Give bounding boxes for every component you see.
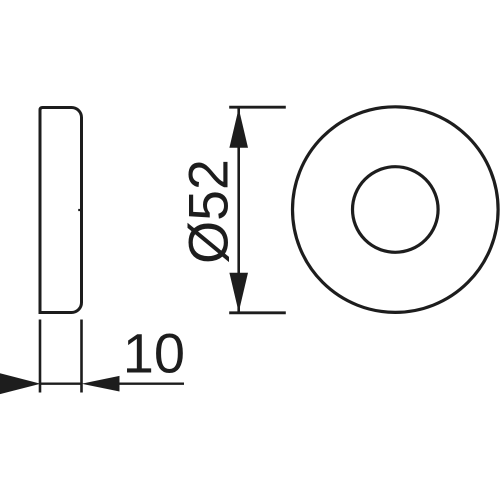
svg-text:10: 10 (123, 322, 185, 385)
dimension line Ø52 vertical (237, 109, 240, 312)
inner circle (hole) (353, 167, 439, 253)
outer circle (front view) (293, 107, 499, 313)
seam tick on disc right edge (78, 209, 82, 211)
side view disc (40, 108, 82, 313)
dimension line 10 (between extension lines) (40, 383, 82, 385)
dim tick bottom (229, 311, 286, 314)
dim tick top (229, 106, 286, 109)
arrowhead down (229, 273, 248, 313)
svg-text:Ø52: Ø52 (177, 159, 239, 264)
extension line left (39, 320, 42, 393)
arrowhead left (points right, tip at left extension line) (0, 373, 41, 394)
dimension tail right (119, 383, 184, 385)
arrowhead right (points left, tip at right extension line) (82, 376, 120, 392)
arrowhead up (229, 108, 248, 148)
extension line right (80, 320, 83, 393)
